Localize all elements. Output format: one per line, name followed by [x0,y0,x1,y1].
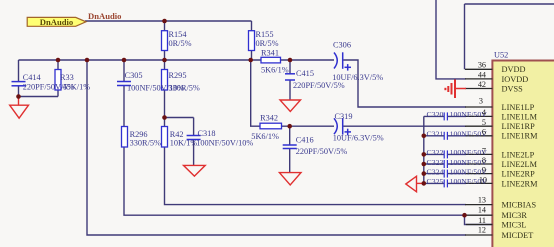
svg-text:DVDD: DVDD [502,65,526,74]
svg-text:LINE1RM: LINE1RM [502,132,539,141]
svg-text:13: 13 [478,195,486,204]
svg-text:R341: R341 [261,48,279,57]
svg-text:36: 36 [478,61,486,70]
svg-text:LINE1LP: LINE1LP [502,103,535,112]
svg-text:0R/5%: 0R/5% [256,39,279,48]
svg-text:R295: R295 [169,71,187,80]
svg-text:44: 44 [478,70,486,79]
svg-text:DnAudio: DnAudio [88,11,121,21]
svg-text:14: 14 [478,206,486,215]
svg-text:9: 9 [482,166,486,175]
svg-text:6: 6 [482,128,486,137]
svg-text:5K6/1%: 5K6/1% [261,66,289,75]
svg-text:10: 10 [479,175,487,184]
svg-text:R33: R33 [60,73,74,82]
svg-text:LINE1LM: LINE1LM [502,112,538,121]
svg-text:220PF/50V/5%: 220PF/50V/5% [293,81,345,90]
svg-text:LINE1RP: LINE1RP [502,122,536,131]
svg-text:C325: C325 [427,177,444,186]
svg-text:C415: C415 [296,69,314,78]
svg-text:LINE2LP: LINE2LP [502,150,535,159]
svg-text:42: 42 [478,80,486,89]
svg-text:10UF/6.3V/5%: 10UF/6.3V/5% [333,134,384,143]
svg-text:3: 3 [479,96,483,105]
svg-text:10K/1%: 10K/1% [170,139,198,148]
svg-text:11: 11 [478,216,486,225]
svg-text:C319: C319 [335,112,353,121]
svg-text:C416: C416 [296,136,314,145]
svg-text:45K/1%: 45K/1% [63,83,91,92]
svg-text:C305: C305 [125,71,143,80]
svg-text:C324: C324 [427,167,444,176]
svg-text:8: 8 [482,156,486,165]
svg-text:MIC3R: MIC3R [502,211,528,220]
svg-text:5: 5 [482,118,486,127]
svg-text:MIC3L: MIC3L [502,220,527,229]
svg-text:MICBIAS: MICBIAS [502,201,537,210]
svg-text:C318: C318 [198,129,216,138]
svg-text:DnAudio: DnAudio [40,17,73,27]
svg-text:C322: C322 [427,148,444,157]
svg-text:12: 12 [478,226,486,235]
svg-text:LINE2LM: LINE2LM [502,160,538,169]
svg-text:4: 4 [482,108,486,117]
svg-text:R154: R154 [169,30,188,39]
svg-text:330R/5%: 330R/5% [130,139,161,148]
svg-text:5K6/1%: 5K6/1% [251,132,279,141]
svg-text:330R/5%: 330R/5% [169,84,200,93]
svg-text:R155: R155 [256,30,274,39]
svg-text:LINE2RM: LINE2RM [502,179,539,188]
svg-text:IOVDD: IOVDD [502,75,529,84]
svg-text:C323: C323 [427,158,444,167]
svg-text:LINE2RP: LINE2RP [502,170,536,179]
svg-text:0R/5%: 0R/5% [169,39,192,48]
svg-text:U52: U52 [494,51,508,60]
svg-text:DVSS: DVSS [502,84,524,93]
svg-text:R342: R342 [260,114,278,123]
svg-text:C306: C306 [333,40,351,49]
svg-text:MICDET: MICDET [502,231,534,240]
svg-text:C414: C414 [23,73,42,82]
svg-text:C321: C321 [427,130,444,139]
svg-text:7: 7 [482,146,486,155]
svg-text:100NF/50V/10%: 100NF/50V/10% [196,139,253,148]
svg-text:C320: C320 [427,110,444,119]
svg-text:220PF/50V/5%: 220PF/50V/5% [296,147,348,156]
